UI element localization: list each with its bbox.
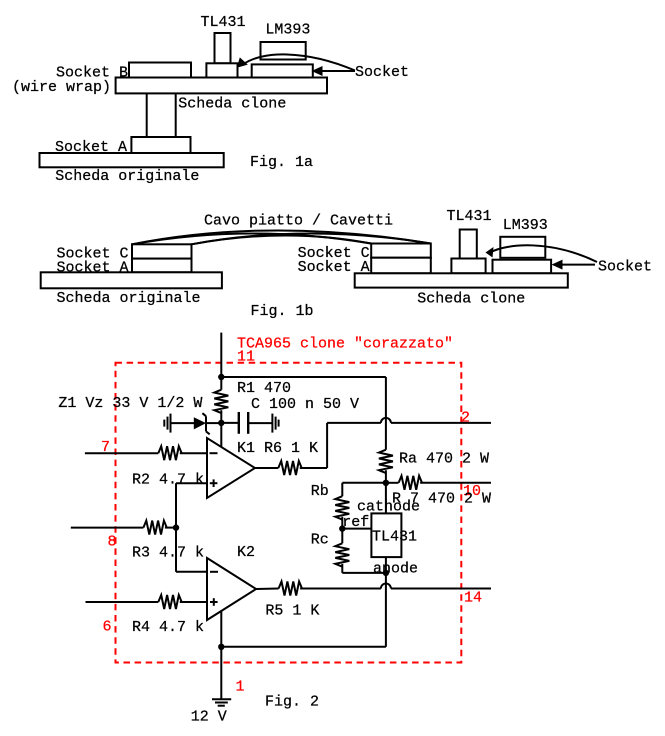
- svg-text:R4 4.7 k: R4 4.7 k: [132, 619, 204, 636]
- socket C box right (Fig 1b): [371, 244, 431, 258]
- svg-text:Scheda clone: Scheda clone: [417, 291, 525, 308]
- scheda clone board (Fig 1a): [116, 78, 327, 94]
- label C 100 n 50 V: [251, 396, 359, 413]
- wire node down to K2 minus: [176, 528, 207, 572]
- label K2: [237, 544, 255, 561]
- svg-text:Cavo piatto / Cavetti: Cavo piatto / Cavetti: [204, 213, 393, 230]
- label Rc: [311, 531, 329, 548]
- socket B box (Fig 1a): [129, 63, 191, 78]
- svg-text:R3 4.7 k: R3 4.7 k: [132, 545, 204, 562]
- wire pin to zener: [171, 422, 195, 424]
- label Socket C left (Fig 1b): [57, 246, 129, 263]
- pin 8 wire: [71, 527, 144, 529]
- label LM393 (Fig 1a): [265, 22, 310, 39]
- resistor R5: [279, 582, 381, 596]
- label R5 1 K: [265, 602, 319, 619]
- connector pin symbol right: [272, 414, 278, 433]
- pin 11 label: [237, 349, 255, 366]
- wire pin 14 line: [381, 584, 491, 589]
- pin 10 label: [463, 483, 481, 500]
- resistor Ra: [379, 450, 393, 483]
- label R4 4.7 k: [132, 619, 204, 636]
- wire anode down: [385, 573, 387, 647]
- resistor Rc: [335, 529, 349, 573]
- label Fig. 2: [265, 693, 319, 710]
- label Socket A right (Fig 1b): [298, 259, 370, 276]
- label Ra 470 2 W: [399, 450, 489, 467]
- socket C box left (Fig 1b): [132, 244, 192, 258]
- TL431 socket (Fig 1a): [206, 63, 237, 77]
- wire ref to TL431: [342, 528, 371, 530]
- svg-text:TL431: TL431: [201, 14, 246, 31]
- svg-text:Socket: Socket: [355, 64, 409, 81]
- svg-text:TL431: TL431: [447, 208, 492, 225]
- label Socket A left (Fig 1b): [57, 260, 129, 277]
- wire Ra branch vertical: [385, 377, 387, 450]
- svg-text:Fig. 2: Fig. 2: [265, 693, 319, 710]
- svg-text:Socket: Socket: [598, 259, 652, 276]
- ribbon cable 2: [132, 233, 371, 244]
- svg-text:LM393: LM393: [503, 217, 548, 234]
- svg-text:Z1 Vz 33 V 1/2 W: Z1 Vz 33 V 1/2 W: [58, 395, 202, 412]
- wire capacitor to pin: [248, 422, 272, 424]
- label 12 V: [191, 708, 227, 725]
- label Socket (Fig 1a): [355, 64, 409, 81]
- svg-text:R1 470: R1 470: [237, 380, 291, 397]
- svg-text:Rb: Rb: [311, 483, 329, 500]
- label TL431 (Fig 1b): [447, 208, 492, 225]
- socket A box (Fig 1a): [131, 137, 190, 153]
- wire C output line: [327, 418, 491, 423]
- svg-text:Scheda originale: Scheda originale: [57, 290, 201, 307]
- zener diode Z1: [194, 413, 210, 434]
- label Cavo piatto / Cavetti: [204, 213, 393, 230]
- label cathode: [357, 498, 420, 515]
- svg-text:1: 1: [236, 679, 245, 696]
- pin 2 label: [461, 410, 470, 427]
- svg-text:Rc: Rc: [311, 531, 329, 548]
- svg-text:LM393: LM393: [265, 22, 310, 39]
- svg-text:TCA965 clone "corazzato": TCA965 clone "corazzato": [237, 336, 453, 353]
- svg-text:2: 2: [461, 410, 470, 427]
- arrow to LM393 socket (Fig 1b): [552, 260, 596, 270]
- label LM393 (Fig 1b): [503, 217, 548, 234]
- TL431 box: [371, 513, 401, 557]
- pin 11 wire (top stub): [220, 333, 222, 377]
- label TL431 (Fig 1a): [201, 14, 246, 31]
- connector pin symbol left: [164, 414, 170, 433]
- socket A box left (Fig 1b): [132, 259, 192, 273]
- op-amp K1: [207, 438, 255, 498]
- label Socket A: [55, 139, 127, 156]
- node K1 supply: [218, 420, 224, 426]
- scheda originale board (Fig 1b): [41, 272, 222, 288]
- svg-text:C 100 n 50 V: C 100 n 50 V: [251, 396, 359, 413]
- wire R6 up to C line: [326, 423, 328, 468]
- pin 6 wire: [86, 601, 159, 603]
- label Scheda clone (Fig 1a): [178, 96, 286, 113]
- resistor R3: [143, 521, 176, 535]
- node Ra bottom: [383, 480, 389, 486]
- wire anode to ground rail: [221, 646, 386, 648]
- svg-text:Scheda originale: Scheda originale: [55, 168, 199, 185]
- wire to R7: [386, 482, 399, 484]
- wire Rc to anode: [342, 572, 386, 574]
- svg-text:R5 1 K: R5 1 K: [265, 602, 319, 619]
- LM393 socket (Fig 1b): [493, 260, 552, 274]
- wire node to capacitor: [221, 422, 239, 424]
- TL431 socket (Fig 1b): [451, 259, 485, 274]
- wire K1 plus input: [176, 482, 207, 484]
- wire K1+ down to node: [175, 483, 177, 527]
- connector leg right (Fig 1a): [175, 93, 177, 137]
- svg-text:R2 4.7 k: R2 4.7 k: [132, 472, 204, 489]
- svg-text:TL431: TL431: [372, 528, 417, 545]
- connector leg left (Fig 1a): [146, 93, 148, 137]
- label TL431 (Fig 2): [372, 528, 417, 545]
- resistor R2: [158, 446, 207, 460]
- wire node to Ra branch: [221, 376, 386, 378]
- svg-text:Fig. 1b: Fig. 1b: [251, 303, 314, 320]
- label Socket C right (Fig 1b): [298, 245, 370, 262]
- label Rb: [311, 483, 329, 500]
- resistor R1: [214, 377, 228, 423]
- node ground rail: [218, 644, 224, 650]
- label R 7 470 2 W: [392, 490, 491, 507]
- resistor Rb: [335, 496, 349, 528]
- node anode junction: [383, 570, 389, 576]
- svg-text:(wire wrap): (wire wrap): [12, 79, 111, 96]
- label Scheda originale (Fig 1a): [55, 168, 199, 185]
- wire Rb branch: [342, 483, 386, 496]
- ground symbol: [212, 699, 231, 705]
- wire zener to node: [206, 422, 221, 424]
- svg-text:Scheda clone: Scheda clone: [178, 96, 286, 113]
- label Fig. 1a: [250, 154, 313, 171]
- TL431 package (Fig 1b): [460, 230, 477, 259]
- label Scheda clone (Fig 1b): [417, 291, 525, 308]
- pin 6 label: [103, 619, 112, 636]
- LM393 socket (Fig 1a): [252, 64, 313, 77]
- wire anode: [385, 557, 387, 573]
- pin 14 label: [464, 590, 482, 607]
- wire cathode: [385, 483, 387, 514]
- node R1 top: [218, 374, 224, 380]
- svg-text:Fig. 1a: Fig. 1a: [250, 154, 313, 171]
- wire K1 output: [255, 467, 278, 469]
- capacitor C 100n: [239, 412, 248, 434]
- node ref junction: [339, 525, 345, 531]
- resistor R7: [399, 476, 491, 490]
- arrow to LM393 socket (Fig 1a): [312, 66, 356, 76]
- pin 7 wire: [85, 452, 158, 454]
- label Socket B: [56, 65, 128, 82]
- TL431 package (Fig 1a): [215, 33, 231, 63]
- title TCA965 clone "corazzato": [237, 336, 453, 353]
- label R3 4.7 k: [132, 545, 204, 562]
- label Z1 Vz 33 V 1/2 W: [58, 395, 202, 412]
- ribbon cable 3: [192, 233, 431, 244]
- svg-text:14: 14: [464, 590, 482, 607]
- label anode: [373, 561, 418, 578]
- label Scheda originale (Fig 1b): [57, 290, 201, 307]
- svg-text:K1 R6 1 K: K1 R6 1 K: [237, 440, 318, 457]
- resistor R6: [278, 461, 327, 475]
- curved arrow to TL431 socket (Fig 1b): [486, 245, 598, 262]
- resistor R4: [158, 595, 207, 609]
- svg-text:Ra 470 2 W: Ra 470 2 W: [399, 450, 489, 467]
- label R2 4.7 k: [132, 472, 204, 489]
- svg-text:8: 8: [108, 534, 117, 551]
- LM393 package (Fig 1b): [500, 237, 545, 258]
- pin 1 label: [236, 679, 245, 696]
- label Socket (Fig 1b): [598, 259, 652, 276]
- scheda clone board (Fig 1b): [355, 273, 568, 287]
- curved arrow to TL431 socket (Fig 1a): [237, 54, 355, 70]
- label Fig. 1b: [251, 303, 314, 320]
- ribbon cable 4: [192, 235, 372, 244]
- wire K2 output: [256, 588, 279, 591]
- pin 7 label: [101, 439, 110, 456]
- label (wire wrap): [12, 79, 111, 96]
- svg-text:12 V: 12 V: [191, 708, 227, 725]
- label K1 R6 1 K: [237, 440, 318, 457]
- socket A box right (Fig 1b): [371, 258, 431, 274]
- dashed IC boundary box: [116, 363, 462, 663]
- LM393 package (Fig 1a): [261, 42, 306, 60]
- wire K2 supply down: [220, 610, 222, 699]
- svg-text:K2: K2: [237, 544, 255, 561]
- node R3 junction: [173, 524, 179, 530]
- label ref: [342, 514, 369, 531]
- op-amp K2: [207, 558, 256, 620]
- wire node to K1 top: [220, 423, 222, 448]
- svg-text:6: 6: [103, 619, 112, 636]
- svg-text:anode: anode: [373, 561, 418, 578]
- scheda originale board (Fig 1a): [40, 153, 224, 167]
- pin 8 label: [108, 534, 117, 551]
- label R1 470: [237, 380, 291, 397]
- ribbon cable 1: [132, 230, 431, 244]
